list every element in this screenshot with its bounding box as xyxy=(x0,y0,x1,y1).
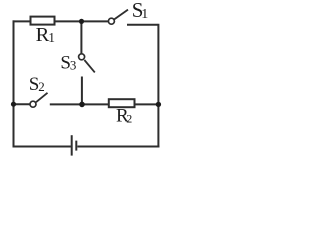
wire top-middle segment (R1 to S1) xyxy=(54,20,108,22)
battery negative plate (short) xyxy=(75,141,77,151)
wire top-right segment (S1 to right corner) xyxy=(127,24,158,26)
junction node left (left wire / S2 branch) xyxy=(11,102,16,107)
wire bottom-right segment (corner to battery) xyxy=(77,146,159,148)
switch S3 pivot circle xyxy=(79,54,85,60)
switch S2 blade xyxy=(36,93,48,102)
switch S3 blade xyxy=(84,60,94,72)
wire middle-right segment (R2 to right wire) xyxy=(134,103,158,105)
wire left vertical xyxy=(13,20,15,147)
switch S1 pivot circle xyxy=(108,18,114,24)
switch S2 pivot circle xyxy=(30,101,36,107)
svg-text:2: 2 xyxy=(126,112,132,126)
junction node at top (R1/S1/S3 branch) xyxy=(79,19,84,24)
wire bottom-left segment (battery to left corner) xyxy=(13,146,71,148)
switch S1 blade xyxy=(114,10,128,20)
svg-text:3: 3 xyxy=(70,58,77,73)
wire center vertical upper (top junction to S3) xyxy=(80,21,82,54)
junction node right (middle wire / right wire) xyxy=(156,102,161,107)
svg-text:1: 1 xyxy=(48,30,55,45)
wire top-left segment xyxy=(13,20,32,22)
resistor R1 xyxy=(31,17,55,25)
wire center vertical lower (S3 to middle junction) xyxy=(81,77,83,105)
wire middle segment (S2 to R2) xyxy=(50,103,109,105)
wire middle-left stub (left wire to S2) xyxy=(14,103,31,105)
wire right vertical xyxy=(157,24,159,148)
svg-text:2: 2 xyxy=(38,79,45,94)
battery positive plate (long) xyxy=(71,135,73,155)
resistor R2 xyxy=(109,99,135,107)
svg-text:1: 1 xyxy=(141,7,148,22)
junction node center (S3 branch / middle wire) xyxy=(79,102,85,108)
